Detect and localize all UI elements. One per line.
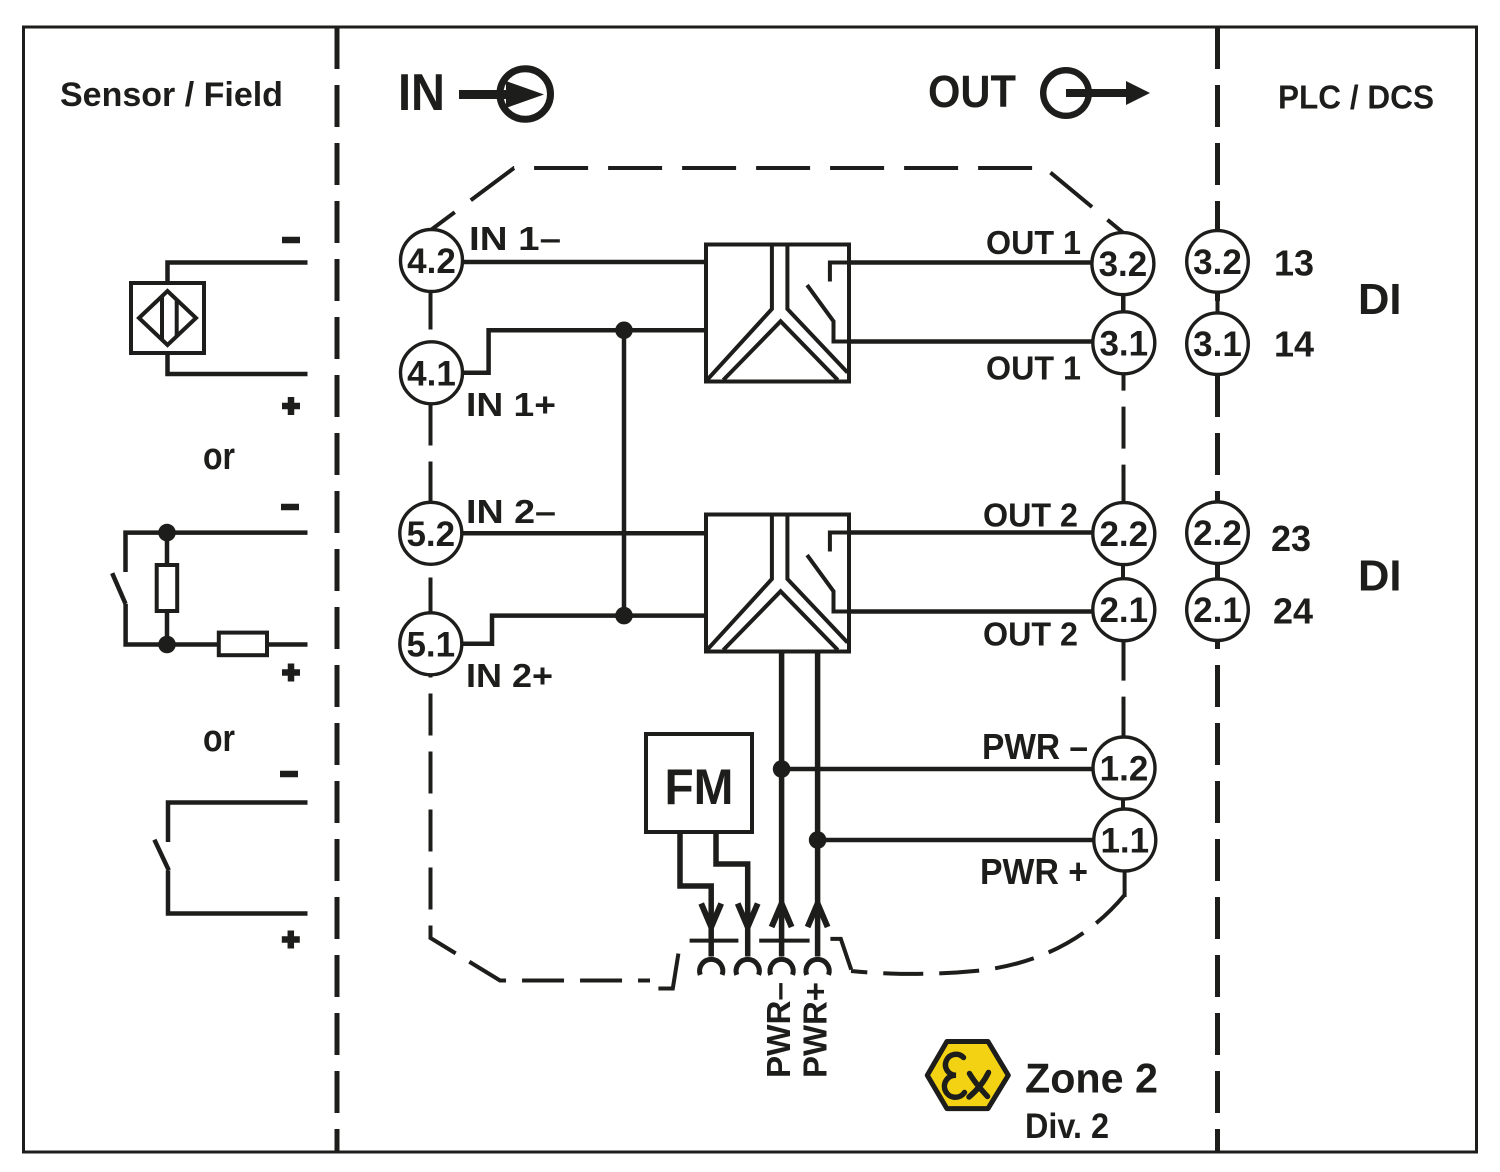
connector segment terminals 1.2-1.1 [1121, 795, 1125, 812]
svg-text:OUT: OUT [928, 66, 1016, 117]
arrow up on PWR- lead [772, 904, 792, 928]
sensor S2 wire plus [126, 604, 308, 645]
svg-text:PWR–: PWR– [760, 982, 797, 1078]
sensor S1 proximity sensor wire minus [168, 263, 308, 284]
arrow down on FM lead left [701, 904, 721, 928]
svg-text:IN 2–: IN 2– [466, 493, 556, 530]
svg-text:DI: DI [1358, 275, 1402, 324]
terminal 3.2 [1092, 233, 1154, 295]
sensor S2 junction node bottom [158, 636, 176, 654]
sensor S3 switch wire minus [168, 803, 308, 843]
svg-text:3.2: 3.2 [1193, 243, 1242, 282]
device terminal edge bar 1 [690, 939, 739, 943]
svg-text:PLC / DCS: PLC / DCS [1278, 79, 1434, 116]
junction node IN1+ [615, 322, 633, 340]
terminal 4.2 [401, 230, 463, 292]
terminal 1.1 [1094, 809, 1156, 871]
wire link IN1+ to IN2+ [622, 330, 627, 615]
PLC terminal 2.2 [1187, 502, 1249, 564]
device terminal edge bar 2 [759, 939, 809, 943]
terminal 2.2 [1093, 503, 1155, 565]
terminal socket cup 1 [700, 959, 723, 975]
svg-text:3.1: 3.1 [1193, 325, 1242, 364]
sensor S1 minus sign [282, 237, 300, 244]
sensor S2 parallel branch wire [165, 533, 170, 645]
connector segment terminals 2.2-2.1 [1121, 562, 1125, 580]
isolator U1 [706, 245, 849, 382]
isolation barrier left [707, 245, 772, 381]
FM box [646, 734, 752, 832]
svg-text:5.2: 5.2 [406, 515, 455, 554]
svg-text:1.2: 1.2 [1100, 750, 1149, 789]
terminal 4.1 [401, 342, 463, 404]
sensor S2 minus sign [281, 504, 299, 511]
device terminal edge right corner [830, 939, 851, 970]
svg-text:2.2: 2.2 [1193, 514, 1242, 553]
Ex hazardous area symbol [927, 1042, 1008, 1109]
svg-text:2.1: 2.1 [1193, 591, 1242, 630]
terminal 5.1 [400, 613, 462, 675]
wire IN 1+ from terminal 4.1 to isolator U1 [462, 330, 706, 373]
output contact fixed lead [830, 263, 849, 282]
svg-text:IN: IN [398, 64, 445, 122]
svg-text:or: or [203, 718, 235, 760]
device terminal edge left corner [658, 954, 678, 989]
svg-text:PWR +: PWR + [980, 851, 1088, 892]
sensor S1 diamond chord 1 [160, 297, 164, 340]
device dashed outline top [432, 168, 1123, 233]
wire IN 1- from terminal 4.2 to isolator U1 [463, 260, 707, 265]
svg-text:14: 14 [1274, 324, 1314, 365]
svg-text:IN 1–: IN 1– [469, 220, 561, 257]
OUT direction icon [928, 66, 1150, 117]
sensor S1 proximity sensor body [131, 283, 204, 353]
svg-text:DI: DI [1358, 552, 1402, 601]
zone boundary right (device | PLC/DCS) [1215, 27, 1220, 1152]
FM lead left [680, 832, 711, 957]
wire PWR+ vertical from isolator U2 [815, 652, 821, 957]
svg-text:OUT 2: OUT 2 [983, 616, 1078, 653]
svg-text:2.1: 2.1 [1099, 591, 1148, 630]
svg-text:OUT 2: OUT 2 [983, 497, 1078, 534]
svg-text:OUT 1: OUT 1 [986, 350, 1081, 387]
sensor S3 switch blade [154, 840, 168, 871]
wire IN 2- from terminal 5.2 to isolator U2 [462, 531, 706, 536]
svg-text:Sensor / Field: Sensor / Field [60, 76, 283, 114]
terminal socket cup 3 [770, 959, 793, 975]
PLC terminal 3.2 [1187, 231, 1249, 293]
svg-text:4.2: 4.2 [407, 242, 456, 281]
junction node IN2+ [615, 607, 633, 625]
svg-text:or: or [203, 436, 235, 478]
sensor S2 plus sign [282, 664, 300, 682]
sensor S3 minus sign [280, 771, 298, 778]
device outline stub below terminal 1.1 [1123, 871, 1127, 897]
wire OUT 2 lower to terminal 2.1 [849, 609, 1093, 614]
svg-text:Zone 2: Zone 2 [1025, 1055, 1158, 1102]
PLC terminal 3.1 [1187, 313, 1249, 375]
sensor S2 switch-resistor wire minus [126, 533, 308, 572]
terminal 1.2 [1093, 737, 1155, 799]
isolator body [706, 245, 849, 382]
terminal socket cup 2 [736, 959, 759, 975]
svg-text:3.1: 3.1 [1099, 324, 1148, 363]
FM lead right [716, 832, 748, 957]
output contact blade [807, 285, 849, 341]
sensor S3 plus sign [282, 931, 300, 949]
svg-text:4.1: 4.1 [407, 354, 456, 393]
wire PWR+ to terminal 1.1 [818, 838, 1095, 843]
sensor S2 resistor R2 [219, 633, 267, 656]
svg-text:PWR+: PWR+ [797, 982, 834, 1078]
connector segment terminals 3.2-3.1 [1121, 292, 1125, 314]
svg-text:13: 13 [1274, 243, 1314, 284]
isolation barrier inner V [723, 321, 838, 380]
svg-text:Div. 2: Div. 2 [1025, 1107, 1109, 1146]
arrow up on PWR+ lead [808, 904, 828, 928]
isolator U2 [706, 515, 849, 652]
svg-text:FM: FM [665, 759, 734, 815]
zone boundary left (Sensor/Field | device) [335, 27, 340, 1152]
wire OUT 2 upper to terminal 2.2 [849, 530, 1093, 535]
junction node PWR+ [809, 831, 827, 849]
terminal socket cup 4 [806, 959, 829, 975]
connector segment PLC terminals 2.2-2.1 [1216, 561, 1220, 581]
sensor S2 switch blade [112, 573, 125, 604]
device outline dashed bottom curve [851, 895, 1125, 974]
svg-text:2.2: 2.2 [1099, 515, 1148, 554]
svg-text:5.1: 5.1 [406, 625, 455, 664]
terminal 5.2 [400, 502, 462, 564]
wire OUT 1 lower to terminal 3.1 [849, 339, 1093, 344]
svg-text:OUT 1: OUT 1 [986, 224, 1081, 261]
sensor S2 resistor R1 [157, 565, 178, 611]
device dashed outline right and bottom curve [1122, 233, 1126, 871]
isolation barrier right [787, 245, 847, 373]
svg-text:PWR –: PWR – [982, 726, 1088, 767]
sensor S3 wire plus [168, 870, 308, 913]
connector segment PLC terminals 3.2-3.1 [1216, 290, 1220, 315]
wire PWR- to terminal 1.2 [782, 767, 1094, 772]
sensor S1 proximity sensor wire plus [168, 353, 308, 374]
svg-text:23: 23 [1271, 518, 1311, 559]
junction node PWR- [773, 760, 791, 778]
terminal 2.1 [1093, 579, 1155, 641]
svg-text:IN 1+: IN 1+ [466, 386, 556, 423]
wire IN 2+ from terminal 5.1 to isolator U2 [462, 616, 706, 644]
PLC terminal 2.1 [1187, 579, 1249, 641]
sensor S1 proximity sensor diamond [139, 291, 196, 345]
wire OUT 1 upper to terminal 3.2 [849, 260, 1092, 265]
svg-text:24: 24 [1273, 591, 1313, 632]
IN direction icon [398, 64, 551, 122]
sensor S2 junction node top [158, 524, 176, 542]
terminal 3.1 [1093, 312, 1155, 374]
arrow down on FM lead right [738, 904, 758, 928]
sensor S1 diamond chord 2 [175, 300, 179, 336]
device dashed outline left and bottom-left [431, 230, 651, 981]
svg-text:3.2: 3.2 [1099, 245, 1148, 284]
svg-text:IN 2+: IN 2+ [466, 657, 553, 694]
wire PWR- vertical from isolator U2 [779, 652, 785, 957]
svg-text:1.1: 1.1 [1100, 822, 1149, 861]
sensor S1 plus sign [282, 397, 300, 415]
